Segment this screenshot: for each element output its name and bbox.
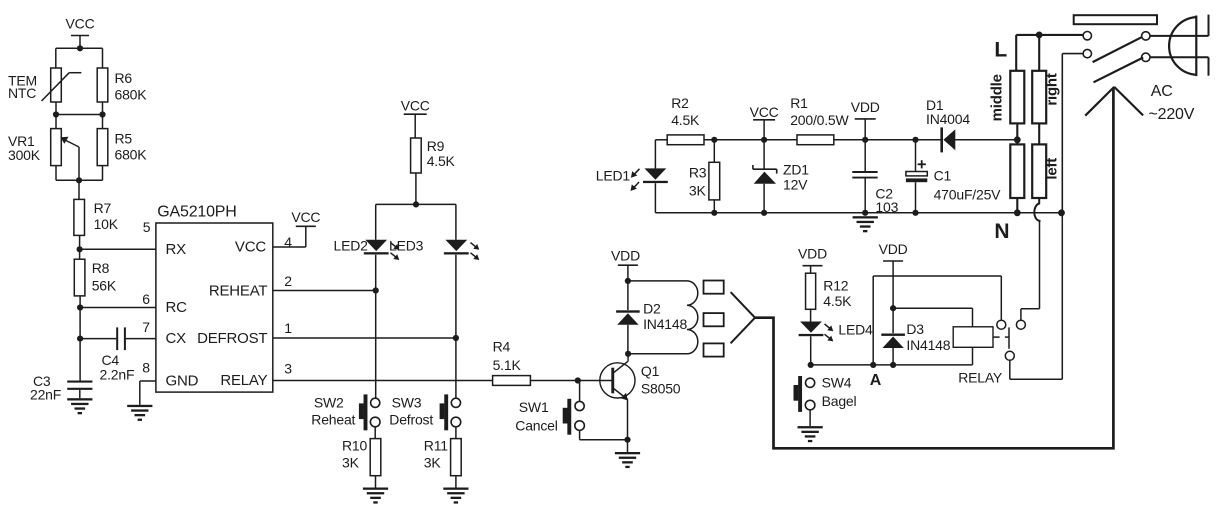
wire hop over N [1034, 198, 1039, 222]
LED2 arrows [391, 243, 398, 249]
svg-text:5: 5 [143, 219, 151, 235]
svg-text:R1: R1 [790, 95, 808, 111]
svg-text:R11: R11 [424, 437, 448, 453]
diode D2 IN4148 [627, 281, 629, 310]
node (RX junction) [77, 246, 83, 252]
svg-text:4.5K: 4.5K [427, 153, 456, 169]
diode D1 IN4004 [940, 127, 943, 152]
svg-text:680K: 680K [115, 147, 148, 163]
svg-text:56K: 56K [92, 278, 117, 294]
svg-text:AC: AC [1151, 83, 1173, 100]
wire R10 to ground [375, 476, 377, 488]
relay blade [1008, 327, 1010, 348]
svg-text:N: N [994, 220, 1009, 243]
capacitor C2 103 [864, 140, 866, 172]
relay actuator dashes [993, 336, 1000, 338]
wire outer loop to relay common [872, 276, 874, 365]
svg-text:VCC: VCC [401, 98, 430, 114]
svg-text:middle: middle [989, 74, 1006, 121]
switch blade 2 [1094, 58, 1144, 83]
wire LED1 feed [655, 139, 667, 141]
wire R4 to Q1 base [530, 380, 612, 382]
resistor R10 3K [370, 439, 381, 476]
svg-text:VCC: VCC [66, 16, 95, 32]
ground (supply) [853, 216, 878, 218]
wire lower contact to N bus [1009, 360, 1011, 379]
svg-text:NTC: NTC [8, 85, 36, 101]
node (R6/R5 junction) [99, 111, 105, 117]
node (R9/LED junction) [413, 201, 419, 207]
svg-text:D2: D2 [643, 300, 661, 316]
svg-text:470uF/25V: 470uF/25V [934, 187, 1002, 203]
wire REHEAT pin 2 [273, 290, 376, 292]
node (CX junction) [77, 336, 83, 342]
resistor R8 56K [74, 259, 85, 296]
svg-text:LED4: LED4 [838, 322, 873, 338]
mechanical slider bar [1074, 15, 1157, 24]
ground (pin 8) [127, 405, 152, 407]
wire SW4 to ground [809, 410, 811, 427]
node (TEM/R6 junction) [53, 111, 59, 117]
LED LED1 [645, 168, 667, 179]
node (VCC top junction) [77, 45, 83, 51]
node (R2/R3 junction) [711, 137, 717, 143]
switch blade 1 [1093, 37, 1142, 62]
svg-text:C1: C1 [934, 168, 952, 184]
wire top divider [56, 47, 103, 49]
relay contact lower [1005, 351, 1014, 360]
wire DEFROST pin 1 [273, 337, 456, 339]
svg-text:Cancel: Cancel [515, 418, 557, 434]
AC plug body [1195, 16, 1197, 77]
svg-text:R8: R8 [92, 260, 110, 276]
svg-text:VCC: VCC [291, 209, 320, 225]
svg-text:GA5210PH: GA5210PH [157, 203, 236, 220]
wire relay box to A line [972, 347, 974, 365]
mechanical arrow head [1085, 87, 1114, 116]
switch SW2 Reheat [364, 394, 368, 430]
svg-text:SW2: SW2 [314, 394, 344, 410]
heater element middle (top-left) [1010, 71, 1024, 124]
svg-text:R3: R3 [689, 165, 707, 181]
heater element left (lower-right) [1032, 144, 1046, 198]
svg-text:RELAY: RELAY [958, 370, 1003, 386]
wire to LED3 [455, 204, 457, 239]
wire supply rail R1-D1 [834, 139, 941, 141]
resistor R6 680K [97, 68, 108, 102]
relay contact NO [1016, 320, 1025, 329]
node (RC junction) [77, 304, 83, 310]
node (D3/coil feed junction) [890, 305, 896, 311]
svg-text:IN4004: IN4004 [926, 111, 970, 127]
svg-text:LED2: LED2 [334, 238, 369, 254]
wire N bus [1061, 54, 1063, 214]
svg-text:10K: 10K [94, 216, 119, 232]
op-amp U1 GA5210PH body [156, 223, 273, 392]
capacitor C1 470uF/25V [915, 140, 917, 172]
switch SW1 Cancel [579, 381, 581, 402]
svg-text:3: 3 [284, 361, 292, 377]
node (ZD1 bottom) [761, 210, 767, 216]
wire R9 to LEDs [415, 173, 417, 204]
svg-text:DEFROST: DEFROST [197, 330, 267, 347]
ground (C3) [67, 398, 92, 400]
svg-text:A: A [870, 372, 882, 389]
svg-text:LED3: LED3 [389, 238, 424, 254]
svg-text:6: 6 [142, 291, 150, 307]
wire RELAY pin 3 [273, 380, 493, 382]
svg-text:L: L [994, 39, 1007, 62]
svg-text:2.2nF: 2.2nF [100, 367, 135, 383]
wire RC to pin 6 [80, 307, 156, 309]
relay coil box [953, 327, 993, 348]
capacitor C3 22nF [67, 381, 92, 383]
svg-text:S8050: S8050 [641, 380, 681, 396]
svg-text:R5: R5 [115, 131, 133, 147]
svg-text:200/0.5W: 200/0.5W [790, 112, 849, 128]
node (D3 anode / A line) [890, 362, 896, 368]
wire LED4 to node A [810, 336, 812, 365]
switch contact left bottom [1083, 49, 1091, 57]
diode D3 IN4148 [892, 308, 894, 333]
LED LED3 [445, 240, 467, 251]
node (C1 bottom) [912, 210, 918, 216]
heater element right (top-right) [1032, 71, 1046, 124]
svg-text:1: 1 [284, 320, 292, 336]
node (D1/heater tap) [1014, 136, 1021, 143]
svg-text:right: right [1044, 73, 1061, 106]
svg-text:Q1: Q1 [641, 363, 660, 379]
svg-text:RELAY: RELAY [220, 372, 267, 389]
LED4 arrows [825, 324, 832, 330]
resistor R4 5.1K [493, 376, 531, 386]
node (DEFROST/LED3 junction) [453, 335, 459, 341]
wire LED1 to ground rail [654, 183, 656, 213]
mechanical chevron linkage [731, 292, 755, 318]
node (N bus junction) [1058, 209, 1065, 216]
node (LED4/SW4 junction) [808, 362, 814, 368]
svg-text:12V: 12V [783, 176, 808, 192]
switch SW3 Defrost [444, 394, 448, 430]
svg-text:5.1K: 5.1K [493, 357, 522, 373]
resistor R3 3K [713, 140, 715, 163]
svg-text:R4: R4 [493, 339, 511, 355]
svg-text:R9: R9 [427, 138, 445, 154]
svg-text:D3: D3 [906, 321, 924, 337]
thermistor TEM NTC [51, 68, 62, 102]
ground (Q1 emitter) [627, 440, 629, 452]
svg-text:R6: R6 [115, 70, 133, 86]
LED LED4 [800, 322, 822, 333]
svg-text:8: 8 [142, 360, 150, 376]
svg-text:Bagel: Bagel [822, 393, 857, 409]
svg-text:R12: R12 [823, 277, 848, 293]
svg-text:2: 2 [284, 273, 292, 289]
wire R12 to LED4 [810, 309, 812, 321]
svg-text:VCC: VCC [235, 239, 266, 256]
transistor Q1 S8050 [600, 363, 635, 398]
resistor R7 10K [78, 180, 80, 199]
svg-text:CX: CX [166, 330, 187, 347]
resistor R1 200/0.5W [797, 135, 834, 145]
node (VDD rail junction) [862, 137, 868, 143]
potentiometer VR1 300K [55, 115, 57, 129]
svg-text:REHEAT: REHEAT [209, 282, 268, 299]
wire R11 to ground [455, 476, 457, 488]
wire mid divider [55, 102, 57, 115]
svg-text:3K: 3K [342, 455, 360, 471]
wire heater right column join [1038, 123, 1040, 144]
wire node A line [811, 364, 973, 366]
wire supply rail R2-R1 [704, 139, 797, 141]
svg-text:VDD: VDD [879, 241, 908, 257]
svg-text:RX: RX [166, 241, 187, 258]
wire SW1 to emitter/ground [579, 430, 581, 439]
resistor R2 4.5K [667, 135, 704, 145]
resistor R11 3K [451, 439, 462, 476]
node (REHEAT/LED2 junction) [373, 287, 379, 293]
svg-text:RC: RC [166, 299, 188, 316]
zener ZD1 12V [763, 140, 765, 169]
node (base/SW1 junction) [575, 377, 581, 383]
LED3 arrows [471, 243, 478, 249]
wire to LED2 [375, 204, 377, 239]
ground (R10) [363, 488, 388, 490]
svg-text:LED1: LED1 [596, 168, 631, 184]
node (outer loop / A line) [870, 362, 876, 368]
relay heater contact bar 3 [704, 343, 724, 356]
switch contact right top [1142, 32, 1150, 40]
svg-text:R2: R2 [671, 95, 689, 111]
svg-text:3K: 3K [689, 183, 707, 199]
wire NO contact to heater bus [1020, 309, 1022, 320]
node (heater top junction) [1036, 32, 1043, 39]
wire RX to pin 5 [80, 248, 156, 250]
node (coil bottom junction) [625, 351, 631, 357]
node (VDD/coil junction) [625, 278, 631, 284]
relay heater contact bar 2 [704, 313, 724, 326]
svg-text:VCC: VCC [750, 104, 779, 120]
switch SW4 Bagel [798, 376, 802, 412]
wire SW3 to R11 [455, 427, 457, 439]
resistor R5 680K [102, 115, 104, 129]
wire CX junction to C4 [80, 338, 117, 340]
relay contact common [997, 320, 1006, 329]
relay heater contact bar 1 [704, 281, 724, 294]
svg-text:R10: R10 [342, 437, 367, 453]
wire SW2 to R10 [374, 427, 376, 439]
svg-text:Defrost: Defrost [389, 412, 433, 428]
wire plug prong bottom [1150, 56, 1208, 58]
node (C1 rail junction) [912, 137, 918, 143]
wire bottom divider [55, 166, 57, 181]
svg-text:4: 4 [284, 234, 292, 250]
relay coil [628, 280, 687, 282]
svg-text:VDD: VDD [798, 246, 827, 262]
mechanical link path (thick) [755, 88, 1113, 449]
svg-text:SW1: SW1 [519, 399, 549, 415]
wire R8 to C3 [79, 296, 81, 382]
svg-text:4.5K: 4.5K [671, 112, 700, 128]
node (wiper junction) [76, 177, 82, 183]
node (VCC rail junction) [761, 137, 767, 143]
svg-text:ZD1: ZD1 [783, 162, 809, 178]
wire C4 to pin 7 [125, 338, 156, 340]
wire LED3 cathode to SW3 [455, 255, 457, 399]
svg-text:7: 7 [142, 319, 150, 335]
svg-text:22nF: 22nF [30, 386, 61, 402]
svg-text:680K: 680K [115, 87, 148, 103]
svg-text:Reheat: Reheat [311, 412, 355, 428]
wire ground rail [714, 212, 1061, 214]
wire coil feed [893, 307, 972, 309]
LED1 arrows [633, 169, 639, 175]
svg-text:4.5K: 4.5K [823, 293, 852, 309]
switch contact right bottom [1142, 53, 1150, 61]
svg-text:SW4: SW4 [822, 375, 852, 391]
wire plug prong top [1150, 35, 1209, 37]
node (R3 bottom) [711, 210, 717, 216]
svg-text:R7: R7 [94, 200, 112, 216]
heater element lower-left [1010, 144, 1024, 198]
capacitor C4 2.2nF [116, 327, 118, 350]
svg-text:IN4148: IN4148 [643, 316, 687, 332]
wire heater top [1016, 34, 1083, 36]
ground (SW4) [798, 426, 823, 428]
wire LED2 cathode to SW2 [375, 255, 377, 399]
resistor R9 4.5K [411, 138, 422, 173]
svg-text:~220V: ~220V [1149, 106, 1195, 123]
wire heater middle tap [1016, 123, 1018, 144]
svg-text:GND: GND [166, 372, 199, 389]
svg-text:3K: 3K [424, 455, 442, 471]
resistor R12 4.5K [806, 273, 816, 309]
wire heater middle bottom to N [1016, 198, 1018, 213]
svg-text:left: left [1044, 158, 1061, 180]
switch contact left top [1083, 32, 1091, 40]
node (C2 bottom) [862, 210, 868, 216]
svg-text:300K: 300K [8, 147, 41, 163]
pin 4 wire and VCC [273, 246, 306, 248]
svg-text:VDD: VDD [851, 99, 880, 115]
wire GND pin 8 [140, 380, 156, 382]
wire R7 to R8 [79, 235, 81, 259]
svg-text:VDD: VDD [611, 247, 640, 263]
LED LED2 [365, 240, 387, 251]
svg-text:SW3: SW3 [392, 394, 422, 410]
svg-text:IN4148: IN4148 [906, 337, 950, 353]
node (emitter/ground junction) [624, 437, 630, 443]
node (heater/N junction) [1014, 209, 1021, 216]
ground (R11) [443, 488, 468, 490]
